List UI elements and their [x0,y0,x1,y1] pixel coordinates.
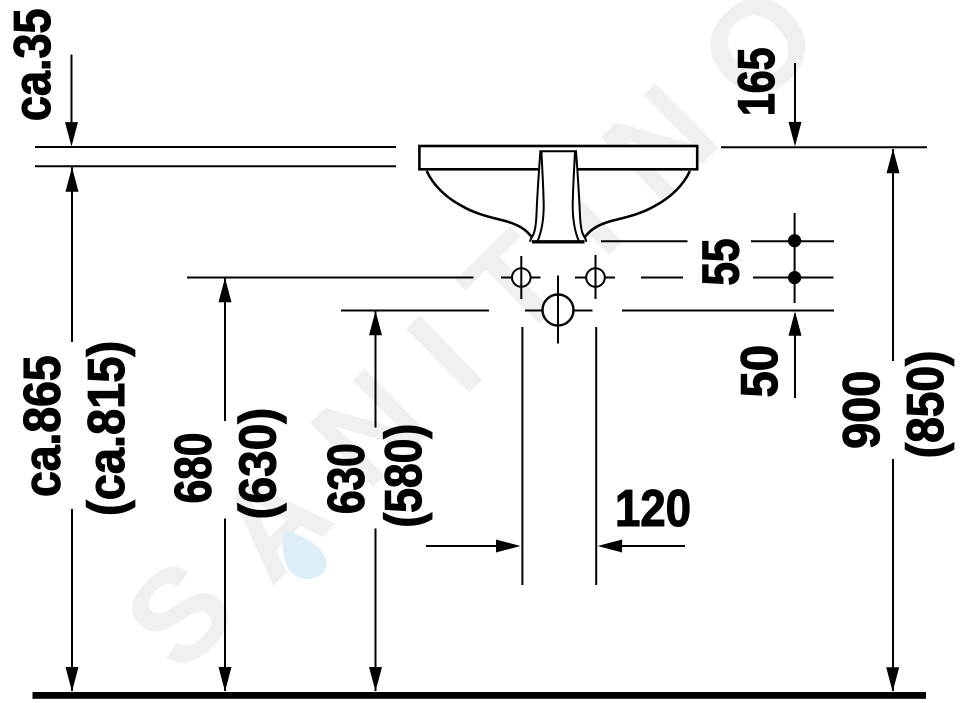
dim 165 arrow [789,122,802,146]
label 630 [328,445,365,512]
dim ca.35 arrow [65,122,78,147]
drain vertical centermark [557,276,559,344]
dim 900 line upper [892,149,894,361]
dim 120 left arrow [496,540,521,553]
label 165 [738,49,775,114]
trap white fill [530,150,587,242]
dim ca.865 line upper [71,167,73,342]
dim 680 arrow bottom [219,667,232,692]
label (850) [905,353,954,456]
dim 680 arrow top [219,278,232,303]
dim 900 line lower [892,459,894,691]
dim 630 line upper [375,311,377,428]
watermark sanitino text [119,0,824,675]
label 50 [741,347,778,396]
left faucet hole [512,268,531,287]
washbasin rim [419,146,697,169]
label 680 [175,434,212,501]
dim ca.35 line [71,55,73,143]
dim 630 arrow bottom [369,667,382,692]
label 900 [843,373,880,448]
dim 120 right arrow [598,540,623,553]
watermark water drop [283,531,327,579]
pedestal right line [595,327,597,585]
drain hole [543,295,574,326]
dim ca.865 arrow top [66,167,79,192]
rim-level line right [721,146,927,148]
dim 120 left tail [426,545,517,547]
label (ca.815) [86,343,135,513]
55 dot upper [788,234,801,247]
dim 900 arrow top [887,149,900,174]
dim ca.865 line lower [71,509,73,691]
dim 50 line [794,314,796,398]
pedestal left line [521,327,523,585]
label 120 [618,490,689,527]
label (630) [238,410,286,517]
dim 50 arrow [789,311,802,336]
dim 900 arrow bottom [886,667,899,692]
faucet hole center line y277 [187,277,834,279]
trap base line [532,240,585,243]
dim 680 line upper [224,278,226,421]
drain center line y310 [341,310,834,312]
counter slab top line [35,146,396,148]
label ca.35 [14,10,51,120]
floor line [33,692,927,699]
counter slab bottom line [35,165,396,167]
hole reference line y241 left part [601,240,688,242]
dim ca.865 arrow bottom [66,667,79,692]
washbasin bowl [427,171,690,242]
label ca.865 [24,357,61,496]
left hole vertical centermark [520,256,522,299]
dim 680 line lower [224,519,226,692]
right hole vertical centermark [595,255,597,299]
dim 165 line [794,63,796,143]
label 55 [703,240,739,285]
hole reference line y241 right part [751,240,834,242]
55 center line through dots [794,213,796,303]
dim 120 right tail [601,545,685,547]
dim 630 line lower [375,529,377,692]
dim 630 arrow top [369,311,382,336]
right faucet hole [586,268,605,287]
label (580) [383,426,432,525]
55 dot lower [788,271,801,284]
